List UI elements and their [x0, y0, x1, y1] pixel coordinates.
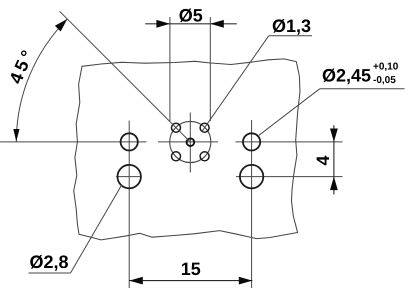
svg-text:-0,05: -0,05: [373, 75, 396, 86]
svg-text:Ø1,3: Ø1,3: [272, 16, 311, 36]
svg-text:Ø2,8: Ø2,8: [30, 252, 69, 272]
svg-text:4: 4: [313, 155, 333, 165]
svg-text:Ø2,45: Ø2,45: [322, 66, 371, 86]
svg-text:Ø5: Ø5: [179, 6, 203, 26]
svg-text:15: 15: [181, 259, 201, 279]
svg-text:+0,10: +0,10: [373, 62, 399, 73]
